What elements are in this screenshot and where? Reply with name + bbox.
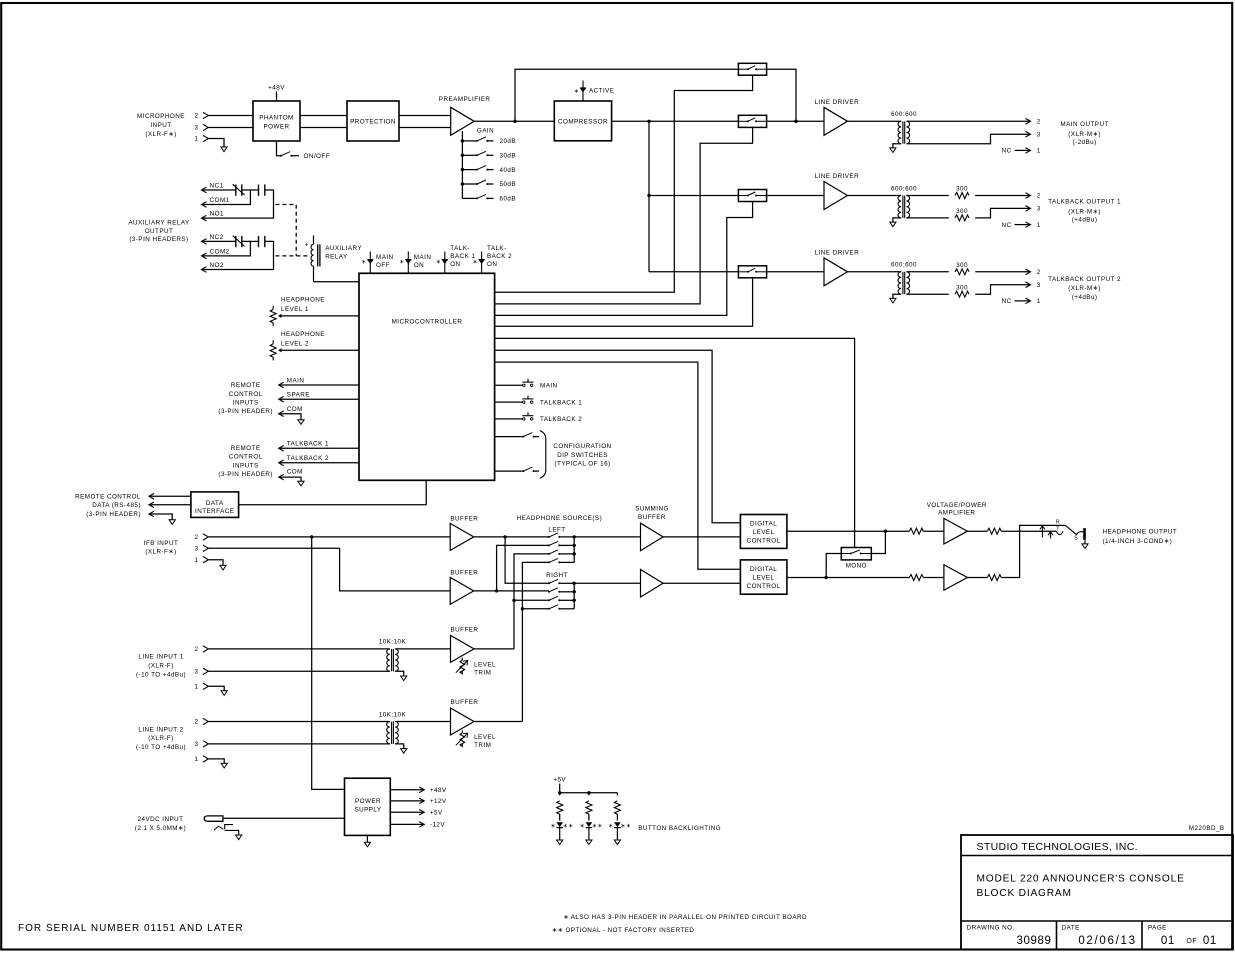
svg-text:60dB: 60dB: [500, 196, 517, 203]
wire supply rail +12V: [390, 800, 424, 802]
node line1 right tap: [512, 599, 515, 602]
node left bus r3: [573, 552, 576, 555]
wire backlight branch 559.7: [559, 793, 561, 796]
potentiometer level trim 1: [456, 658, 468, 675]
wire backlight branch 617.4: [616, 793, 618, 796]
svg-text:50dB: 50dB: [500, 181, 517, 188]
wire NC to COM junction K1: [202, 190, 251, 205]
switch right source 2: [548, 591, 550, 593]
arrow NO2: [202, 267, 207, 273]
arrow NC1: [202, 187, 207, 193]
wire compressor feed bus: [648, 121, 650, 271]
wire right to jack ring: [1001, 525, 1065, 577]
wire ifb power feed to power supply: [312, 537, 345, 790]
svg-text:AUXILIARY: AUXILIARY: [325, 245, 362, 252]
wire micro ctrl to tb2 switch: [495, 278, 753, 327]
wire transformer 1 primary to ground: [893, 144, 901, 148]
switch box main output: [738, 115, 766, 127]
wire buffer2 to left row2: [497, 545, 549, 591]
wire ifb pin2 to buffer1: [208, 536, 450, 538]
wire 24vdc to power supply: [223, 817, 345, 819]
switch gain 20dB: [476, 140, 478, 142]
svg-text:1: 1: [1037, 222, 1041, 229]
svg-text:HEADPHONE OUTPUT: HEADPHONE OUTPUT: [1103, 529, 1178, 536]
node right bus r3: [573, 599, 576, 602]
svg-text:MAIN OUTPUT: MAIN OUTPUT: [1060, 121, 1108, 128]
svg-text:TALKBACK OUTPUT 2: TALKBACK OUTPUT 2: [1048, 276, 1121, 283]
arrow output pin1 row1: [1026, 148, 1031, 154]
wire backlight resistor to LED 559.7: [559, 814, 561, 821]
svg-text:NO1: NO1: [210, 211, 224, 218]
resistor left amp output: [987, 528, 1001, 534]
svg-text:HEADPHONE: HEADPHONE: [281, 331, 325, 338]
arrow output pin2 row1: [1026, 119, 1031, 125]
svg-text:∗: ∗: [608, 824, 613, 830]
wire backlight rail: [560, 792, 618, 794]
svg-text:REMOTE: REMOTE: [231, 445, 261, 452]
svg-text:(-2dBu): (-2dBu): [1073, 139, 1097, 146]
wire spare input: [279, 398, 359, 400]
wire feed to talkback1 switch: [649, 195, 738, 197]
svg-text:TALKBACK 1: TALKBACK 1: [540, 399, 582, 406]
wire buffer1 output: [474, 536, 549, 538]
wire backlight resistor to LED 588.9: [588, 814, 590, 821]
LED button backlight 617.4: [614, 822, 621, 840]
wire buffer line2 output: [474, 721, 522, 723]
svg-text:LINE DRIVER: LINE DRIVER: [815, 99, 860, 106]
svg-text:3: 3: [195, 669, 199, 676]
wire resistor to pin2 row3: [975, 271, 1030, 273]
wire micro to mono switch: [495, 338, 855, 547]
ground line1 pin1: [221, 691, 227, 696]
potentiometer headphone level 1: [270, 306, 281, 326]
wire micro to TALKBACK 2 button: [495, 418, 523, 420]
svg-text:TALK-: TALK-: [487, 245, 507, 252]
wire right bus to summing buffer2: [574, 582, 640, 584]
svg-text:(2.1 X 5.0MM∗): (2.1 X 5.0MM∗): [135, 825, 186, 832]
node backlight rail left: [558, 791, 561, 794]
arrow NO1: [202, 215, 207, 221]
wire transformer 2 secondary bottom: [906, 217, 948, 219]
svg-text:2: 2: [1037, 193, 1041, 200]
LED compressor active: [582, 81, 584, 102]
wire contact bridge K1: [250, 189, 258, 191]
op-amp preamplifier: [451, 107, 475, 135]
svg-text:2: 2: [1037, 269, 1041, 276]
node buffer1 output junction: [503, 535, 506, 538]
svg-text:COM1: COM1: [210, 197, 230, 204]
wire transformer 1 secondary top to pin2: [906, 120, 1030, 122]
ground rs485: [169, 520, 175, 525]
node talkback1 feed junction: [647, 194, 650, 197]
svg-text:POWER: POWER: [355, 798, 381, 805]
wire micro to dip switch top: [495, 436, 524, 438]
svg-text:(TYPICAL OF 16): (TYPICAL OF 16): [554, 461, 610, 468]
title block frame: [961, 835, 1233, 950]
wire line1 transformer to buffer: [395, 648, 450, 650]
wire to right amp: [923, 577, 944, 579]
svg-text:3: 3: [1037, 282, 1041, 289]
svg-text:DIP SWITCHES: DIP SWITCHES: [557, 452, 608, 459]
svg-text:+48V: +48V: [268, 85, 285, 92]
switch left source 4: [548, 561, 550, 563]
svg-text:01: 01: [1161, 935, 1175, 947]
resistor backlight 617.4: [614, 801, 620, 814]
svg-text:∗∗: ∗∗: [563, 824, 574, 830]
svg-text:1: 1: [195, 136, 199, 143]
svg-text:BUFFER: BUFFER: [638, 514, 666, 521]
switch DIP top: [522, 436, 524, 438]
wire NC pin1 row2: [1015, 224, 1031, 226]
wire right amp out: [967, 577, 987, 579]
op-amp summing buffer right: [641, 570, 664, 598]
arrow output pin2 row3: [1026, 269, 1031, 275]
svg-text:1: 1: [195, 756, 199, 763]
svg-text:HEADPHONE SOURCE(S): HEADPHONE SOURCE(S): [517, 515, 603, 522]
ground headphone jack: [1082, 544, 1088, 549]
svg-text:TALKBACK 1: TALKBACK 1: [287, 440, 329, 447]
wire NC pin1 row3: [1015, 300, 1031, 302]
digital level control 1 block: [740, 515, 787, 549]
wire com2 to ground: [279, 477, 301, 481]
svg-text:∗: ∗: [436, 259, 441, 265]
wire micro to TALKBACK 1 button: [495, 401, 523, 403]
svg-text:CONTROL: CONTROL: [747, 583, 781, 590]
wire micro ctrl to main switch: [495, 127, 753, 304]
line1 pin 2 chevron: [203, 646, 208, 652]
arrow output pin3 row3: [1026, 282, 1031, 288]
arrow supply rail -12V: [419, 822, 424, 828]
node compressor output junction: [647, 120, 650, 123]
resistor right amp output: [987, 575, 1001, 581]
arrow main input: [279, 382, 284, 388]
ifb pin 3 chevron: [203, 545, 208, 551]
svg-text:300: 300: [956, 284, 968, 291]
wire left selector bus: [573, 537, 575, 563]
node left bus r2: [573, 544, 576, 547]
svg-text:1: 1: [195, 557, 199, 564]
svg-text:1: 1: [1037, 298, 1041, 305]
wire +48V to phantom power: [276, 92, 278, 102]
op-amp summing buffer left: [641, 523, 664, 551]
wire talkback2 input: [279, 462, 359, 464]
svg-text:1: 1: [1037, 148, 1041, 155]
svg-text:COM: COM: [287, 469, 303, 476]
op-amp line driver 2: [824, 182, 848, 210]
ground 24vdc sleeve: [236, 835, 242, 840]
wire main switch to line driver1: [767, 120, 824, 122]
arrow com input: [279, 411, 284, 417]
wire mono left lead: [826, 554, 841, 578]
arrow spare input: [279, 396, 284, 402]
wire com to ground: [279, 414, 301, 420]
svg-text:M220BD_B: M220BD_B: [1189, 825, 1225, 832]
svg-text:S: S: [1074, 536, 1078, 542]
svg-text:1: 1: [195, 684, 199, 691]
node mono top junction: [884, 530, 887, 533]
wire ifb pin3 to buffer2: [208, 548, 450, 591]
svg-text:NC: NC: [1002, 148, 1012, 155]
switch box main bypass: [738, 63, 766, 75]
svg-text:∗∗: ∗∗: [620, 824, 631, 830]
switch box mono: [841, 548, 871, 560]
op-amp buffer line input 2: [451, 708, 475, 735]
wire NC pin1 row1: [1015, 149, 1031, 151]
op-amp buffer1: [450, 523, 474, 550]
svg-text:3: 3: [1037, 206, 1041, 213]
svg-text:+5V: +5V: [430, 809, 443, 816]
svg-text:300: 300: [956, 208, 968, 215]
svg-text:BLOCK DIAGRAM: BLOCK DIAGRAM: [977, 888, 1072, 899]
svg-text:OF: OF: [1186, 938, 1197, 945]
svg-text:(XLR-F): (XLR-F): [148, 735, 174, 742]
wire line1 secondary ground: [395, 671, 404, 676]
svg-text:LINE DRIVER: LINE DRIVER: [815, 250, 860, 257]
svg-text:FOR SERIAL NUMBER 01151 AND LA: FOR SERIAL NUMBER 01151 AND LATER: [18, 923, 244, 934]
wire gain row 30dB: [462, 154, 477, 156]
svg-text:TALKBACK OUTPUT 1: TALKBACK OUTPUT 1: [1048, 199, 1121, 206]
svg-text:BUFFER: BUFFER: [450, 515, 478, 522]
arrow COM1: [202, 202, 207, 208]
arrow NC2: [202, 239, 207, 245]
wire micro ctrl to tb1 switch: [495, 202, 753, 316]
node gain tap 50dB: [461, 182, 464, 185]
wire buffer2 output: [474, 590, 549, 592]
svg-text:NC: NC: [1002, 222, 1012, 229]
wire micro to digital level control 1: [495, 350, 741, 523]
wire preamp output to junction: [474, 120, 554, 122]
svg-text:ON: ON: [450, 261, 460, 268]
arrow rs485 b: [149, 502, 154, 508]
line2 pin 3 chevron: [203, 741, 208, 747]
svg-text:SUMMING: SUMMING: [635, 506, 669, 513]
wire line1 pin1 to ground: [208, 686, 224, 691]
wire supply rail -12V: [390, 823, 424, 825]
ground transformer 3: [890, 298, 896, 303]
svg-text:DATA (RS-485): DATA (RS-485): [92, 502, 141, 509]
dip switch bracket: [540, 431, 546, 479]
switch gain 50dB: [476, 183, 478, 185]
wire supply rail +5V: [390, 811, 424, 813]
wire tb1 switch to line driver2: [767, 195, 824, 197]
wire pot1 wiper to micro: [281, 315, 360, 317]
svg-text:LEVEL: LEVEL: [474, 661, 496, 668]
node left bus r1: [573, 535, 576, 538]
svg-text:REMOTE: REMOTE: [231, 382, 261, 389]
wire gain bus: [461, 131, 463, 198]
node right bus r1: [573, 582, 576, 585]
op-amp power left: [944, 518, 968, 544]
svg-text:MICROCONTROLLER: MICROCONTROLLER: [392, 319, 463, 326]
svg-text:PROTECTION: PROTECTION: [350, 119, 396, 126]
wire NO to NO2: [202, 241, 274, 269]
dashed link relay group1: [275, 205, 296, 256]
wire line input1 feed: [514, 554, 549, 649]
wire left bus to summing buffer1: [574, 536, 640, 538]
protection block: [347, 101, 399, 141]
svg-text:∗: ∗: [473, 259, 478, 265]
wire rs485 b: [149, 504, 191, 506]
svg-text:DIGITAL: DIGITAL: [750, 520, 777, 527]
switch gain 30dB: [476, 154, 478, 156]
node backlight rail mid: [587, 791, 590, 794]
potentiometer level trim 2: [456, 730, 468, 747]
transformer T2 600:600: [898, 196, 901, 218]
arrow output pin2 row2: [1026, 193, 1031, 199]
svg-text:∗: ∗: [399, 259, 404, 265]
svg-text:+: +: [305, 242, 309, 249]
svg-text:(XLR-M∗): (XLR-M∗): [1068, 285, 1101, 292]
svg-text:(XLR-M∗): (XLR-M∗): [1068, 131, 1101, 138]
svg-text:-12V: -12V: [430, 822, 445, 829]
op-amp buffer line input 1: [451, 635, 475, 662]
wire buffer line1 output: [474, 648, 514, 650]
wire mic pin1 to ground: [208, 139, 224, 148]
switch box talkback1: [738, 190, 766, 202]
digital level control 2 block: [740, 560, 787, 594]
ground line2 pin1: [221, 763, 227, 768]
arrow talkback1 input: [279, 446, 284, 452]
svg-text:∗: ∗: [550, 824, 555, 830]
transformer T1 600:600: [898, 121, 901, 143]
wire rs485 shield to ground: [149, 514, 172, 520]
svg-text:2: 2: [195, 646, 199, 653]
wire NC2: [202, 240, 236, 242]
svg-text:(1/4-INCH 3-COND∗): (1/4-INCH 3-COND∗): [1103, 538, 1173, 545]
wire gain row 60dB: [462, 197, 477, 199]
svg-text:CONTROL: CONTROL: [229, 454, 263, 461]
svg-text:AUXILIARY RELAY: AUXILIARY RELAY: [128, 220, 190, 227]
svg-text:(-10 TO +4dBu): (-10 TO +4dBu): [136, 744, 186, 751]
wire micro ctrl to bypass switch: [495, 75, 753, 292]
wire line2 pin3 to transformer: [208, 743, 390, 745]
svg-text:30989: 30989: [1017, 935, 1052, 947]
wire transformer 3 primary to ground: [893, 294, 901, 298]
resistor 300 row2 top: [955, 193, 969, 199]
barrel connector 24VDC: [204, 816, 239, 835]
wire line2 pin2 to transformer: [208, 721, 390, 723]
svg-text:600:600: 600:600: [891, 111, 917, 118]
dashed link relay group2: [275, 255, 307, 257]
wire tb2 switch to line driver3: [767, 271, 824, 273]
mic pin 2 chevron: [203, 112, 208, 118]
svg-text:(XLR-F∗): (XLR-F∗): [145, 549, 176, 556]
wire dlc2 output: [787, 577, 909, 579]
line2 pin 1 chevron: [203, 756, 208, 762]
wire backlight branch 588.9: [588, 793, 590, 796]
node line2 right tap: [521, 607, 524, 610]
svg-text:VOLTAGE/POWER: VOLTAGE/POWER: [927, 502, 987, 509]
relay NO contact K1: [259, 185, 265, 196]
ground remote com 2: [298, 481, 304, 486]
wire transformer 1 secondary bottom to pin3: [906, 134, 1030, 144]
transformer line input 1 10K:10K: [387, 649, 390, 671]
arrow output pin1 row2: [1026, 222, 1031, 228]
wire +5V stem: [559, 784, 561, 793]
ifb pin 2 chevron: [203, 534, 208, 540]
data interface block: [191, 492, 239, 518]
svg-text:(+4dBu): (+4dBu): [1072, 294, 1098, 301]
svg-text:10K:10K: 10K:10K: [379, 711, 407, 718]
wire line1 to right row3: [514, 599, 549, 601]
wire line2 transformer to buffer: [395, 721, 450, 723]
wire relay coil to microcontroller: [314, 281, 360, 283]
wire right selector bus: [573, 583, 575, 609]
switch right source 3: [548, 599, 550, 601]
wire rs485 a: [149, 495, 191, 497]
svg-text:2: 2: [195, 719, 199, 726]
svg-text:ON: ON: [487, 261, 497, 268]
svg-text:LEVEL 2: LEVEL 2: [281, 340, 309, 347]
wire preamp junction up to bypass switch: [515, 69, 738, 121]
wire line input2 feed: [522, 562, 549, 721]
wire line2 to right row4: [522, 608, 549, 610]
node gain tap 20dB: [461, 139, 464, 142]
svg-text:CONFIGURATION: CONFIGURATION: [553, 443, 611, 450]
svg-text:600:600: 600:600: [891, 185, 917, 192]
svg-text:NO2: NO2: [210, 262, 224, 269]
ground backlight 559.7: [557, 840, 563, 845]
wire phantom to protection upper: [300, 115, 347, 117]
wire line driver 2 to transformer: [848, 195, 902, 197]
svg-text:(3-PIN HEADERS): (3-PIN HEADERS): [129, 236, 188, 243]
wire left amp out: [967, 530, 987, 532]
compressor block: [554, 101, 611, 141]
wire gain row 50dB: [462, 183, 477, 185]
svg-text:(XLR-M∗): (XLR-M∗): [1068, 208, 1101, 215]
node ifb power junction: [310, 535, 313, 538]
LED talkback1 on: [444, 252, 446, 274]
svg-text:PREAMPLIFIER: PREAMPLIFIER: [439, 96, 491, 103]
wire micro to MAIN button: [495, 384, 523, 386]
svg-text:LEVEL: LEVEL: [753, 529, 775, 536]
svg-text:INPUTS: INPUTS: [233, 462, 259, 469]
switch box talkback2: [738, 266, 766, 278]
LED talkback2 on: [481, 252, 483, 274]
svg-text:OFF: OFF: [376, 262, 390, 269]
wire dlc1 output: [787, 530, 909, 532]
resistor 300 row3 top: [955, 269, 969, 275]
wire line2 pin1 to ground: [208, 759, 224, 764]
svg-text:(XLR-F): (XLR-F): [148, 663, 174, 670]
ground remote com 1: [298, 420, 304, 425]
svg-text:LEVEL: LEVEL: [474, 734, 496, 741]
wire NC to COM junction K2: [202, 241, 251, 256]
svg-text:∗ ALSO HAS 3-PIN HEADER IN PAR: ∗ ALSO HAS 3-PIN HEADER IN PARALLEL ON P…: [563, 914, 807, 921]
node gain tap 30dB: [461, 154, 464, 157]
svg-text:10K:10K: 10K:10K: [379, 639, 407, 646]
relay NO contact K2: [259, 236, 265, 247]
svg-text:2: 2: [1037, 119, 1041, 126]
svg-text:MONO: MONO: [846, 563, 867, 570]
resistor 300 row3 bottom: [955, 291, 969, 297]
relay NC contact K1: [233, 184, 245, 196]
ground line2 transformer: [401, 749, 407, 754]
resistor 300 row2 bottom: [955, 215, 969, 221]
svg-text:∗∗ OPTIONAL - NOT FACTORY INSE: ∗∗ OPTIONAL - NOT FACTORY INSERTED: [552, 927, 695, 934]
wire micro to digital level control 2: [495, 362, 741, 569]
auxiliary relay coil K1: [311, 235, 320, 281]
arrow supply rail +48V: [419, 787, 424, 793]
svg-text:∗: ∗: [574, 89, 579, 95]
wire compressor output: [612, 120, 739, 122]
op-amp buffer2: [450, 577, 474, 604]
wire summing1 to dlc1: [663, 536, 740, 538]
svg-text:3: 3: [195, 125, 199, 132]
ground power supply: [364, 842, 370, 847]
wire gain row 40dB: [462, 169, 477, 171]
svg-text:40dB: 40dB: [500, 167, 517, 174]
